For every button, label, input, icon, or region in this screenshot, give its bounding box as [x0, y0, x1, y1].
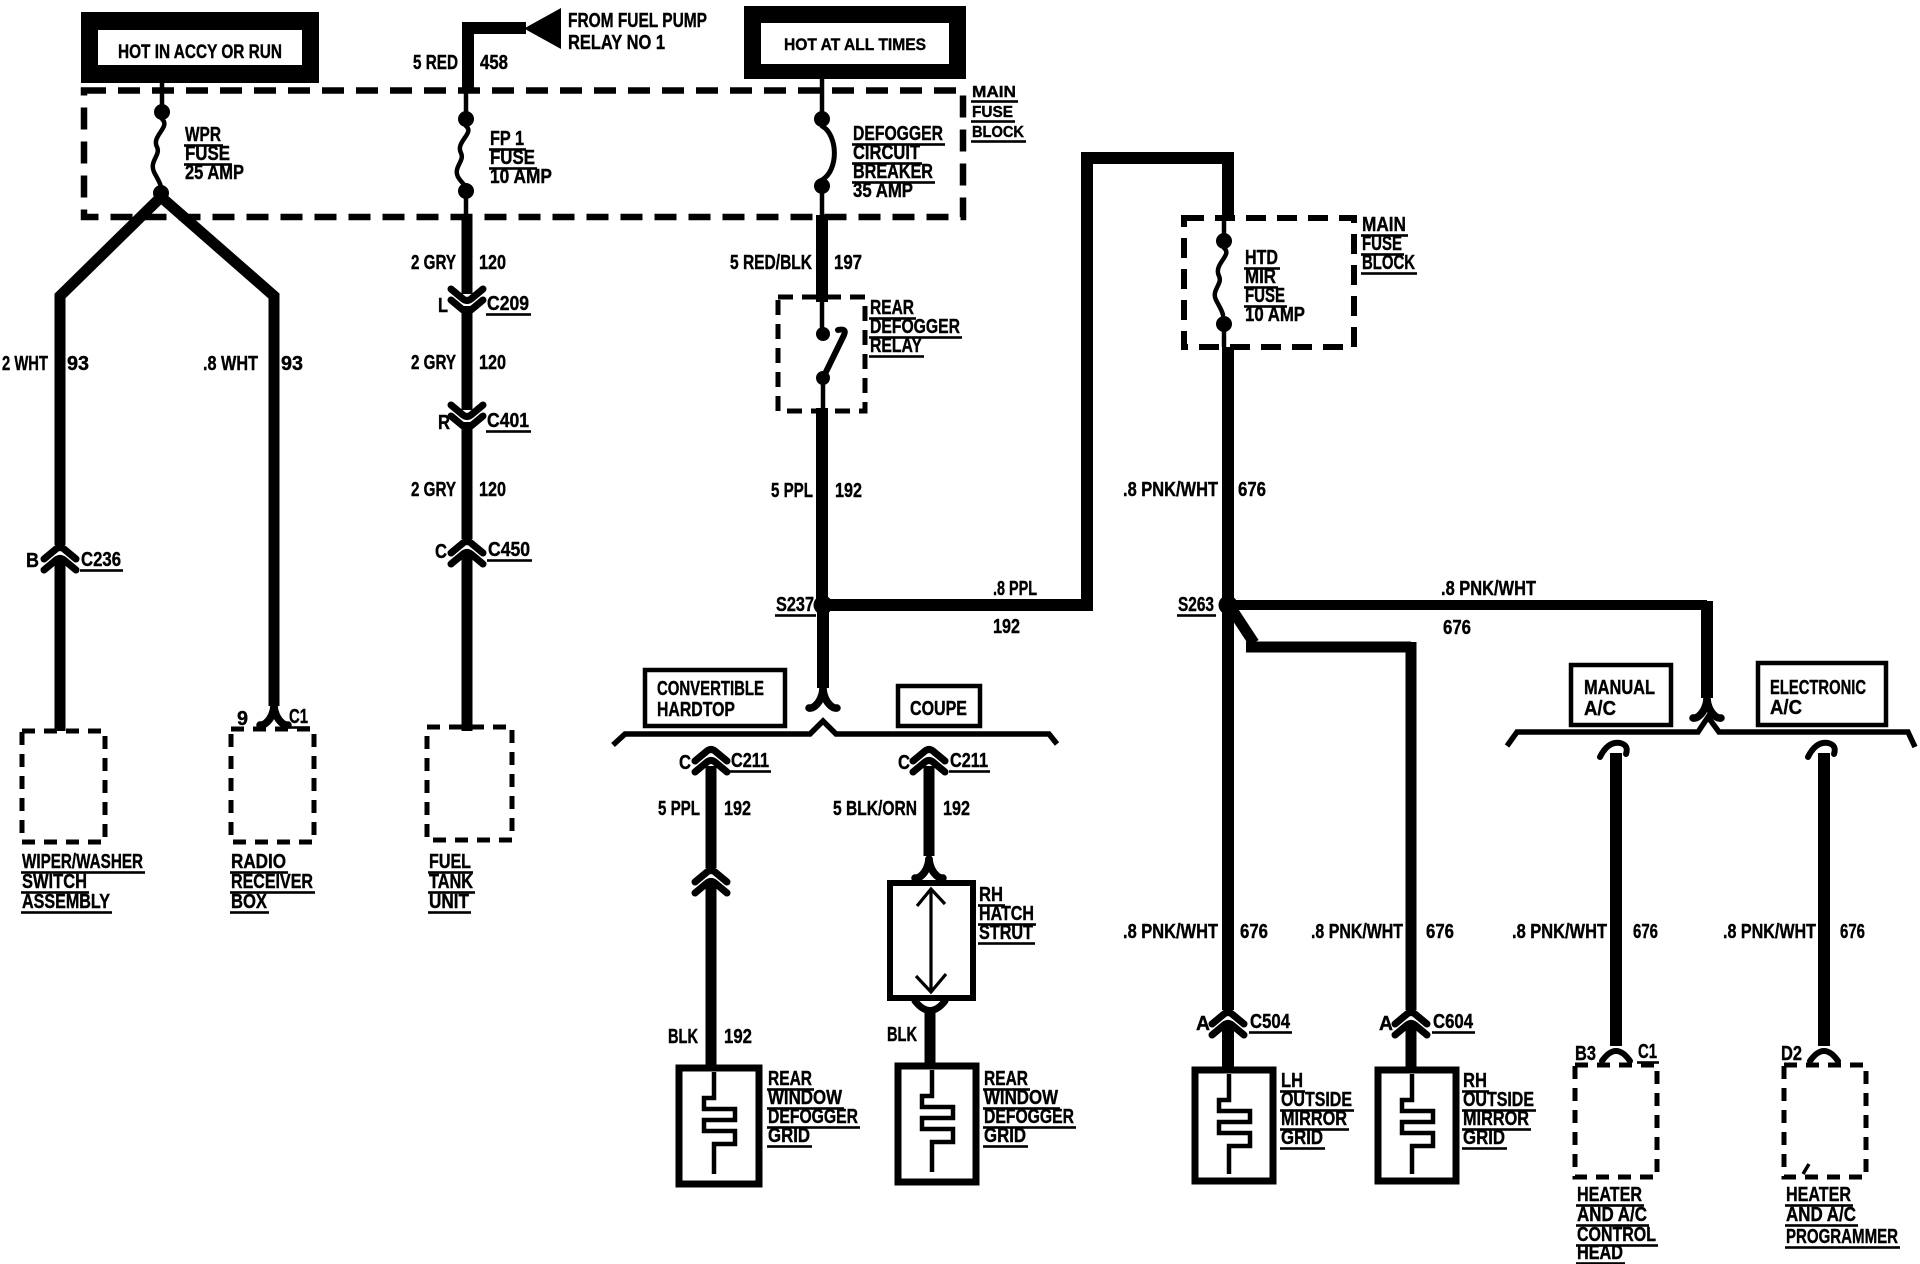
svg-text:C1: C1 — [1638, 1041, 1657, 1063]
connector below RH hatch strut — [915, 1001, 945, 1011]
svg-text:PROGRAMMER: PROGRAMMER — [1786, 1226, 1898, 1248]
svg-text:HEATER: HEATER — [1786, 1184, 1851, 1206]
wire .8 PNK/WHT 676 to C604 — [1406, 642, 1417, 1070]
svg-text:ASSEMBLY: ASSEMBLY — [22, 891, 111, 913]
svg-text:FUSE: FUSE — [972, 104, 1013, 121]
svg-text:5 PPL: 5 PPL — [658, 798, 700, 820]
svg-text:.8 PNK/WHT: .8 PNK/WHT — [1123, 479, 1218, 501]
svg-text:676: 676 — [1238, 479, 1266, 501]
wire 5 PPL 192 to S237 — [816, 408, 828, 611]
svg-text:COUPE: COUPE — [910, 698, 967, 720]
svg-text:C604: C604 — [1433, 1011, 1474, 1033]
svg-text:2 WHT: 2 WHT — [2, 353, 48, 375]
svg-text:676: 676 — [1443, 617, 1471, 639]
RH mirror grid element — [1402, 1074, 1433, 1174]
heater and A/C control head dashed box — [1575, 1065, 1657, 1177]
rear window defogger grid box (convertible) — [679, 1068, 759, 1184]
svg-text:C: C — [435, 541, 447, 563]
wire 5 BLK/ORN 192 to hatch strut — [924, 766, 935, 856]
connector C211 (convertible) — [695, 750, 727, 773]
LH mirror grid element — [1219, 1074, 1250, 1174]
wiper/washer switch assembly dashed box — [22, 731, 105, 842]
svg-text:676: 676 — [1633, 921, 1658, 943]
main fuse block dashed box (right) — [1184, 218, 1354, 347]
connector C209 — [451, 289, 483, 312]
split fork to manual/electronic A/C — [1693, 699, 1721, 718]
convertible hardtop label box — [645, 670, 785, 726]
defogger grid element — [704, 1072, 735, 1174]
svg-text:120: 120 — [479, 252, 506, 274]
svg-text:.8 PNK/WHT: .8 PNK/WHT — [1512, 921, 1607, 943]
wire stub to WPR fuse — [160, 81, 165, 112]
connector C401 — [451, 405, 483, 428]
svg-text:5 BLK/ORN: 5 BLK/ORN — [833, 798, 917, 820]
fuse FP1 10A squiggle — [457, 126, 469, 186]
manual A/C label box — [1571, 665, 1671, 725]
svg-text:93: 93 — [281, 353, 303, 375]
svg-text:CONVERTIBLE: CONVERTIBLE — [657, 678, 764, 700]
arrow to FROM FUEL PUMP RELAY NO 1 — [524, 8, 561, 49]
svg-text:AND A/C: AND A/C — [1577, 1204, 1647, 1226]
relay contact top — [816, 327, 830, 341]
strut arrow bottom — [916, 974, 946, 992]
relay contact bottom — [816, 371, 830, 385]
svg-text:192: 192 — [835, 480, 862, 502]
svg-text:35 AMP: 35 AMP — [853, 180, 913, 202]
wire .8 PPL 192 to main fuse block — [830, 158, 1228, 605]
svg-text:93: 93 — [67, 353, 89, 375]
svg-text:MAIN: MAIN — [972, 84, 1016, 101]
svg-text:C: C — [898, 752, 910, 774]
svg-text:120: 120 — [479, 352, 506, 374]
svg-text:C504: C504 — [1250, 1011, 1291, 1033]
wire stub below FP1 — [464, 191, 469, 217]
svg-text:25 AMP: 25 AMP — [185, 162, 244, 184]
svg-text:ELECTRONIC: ELECTRONIC — [1770, 677, 1866, 699]
svg-text:A/C: A/C — [1584, 698, 1616, 720]
svg-text:C211: C211 — [950, 750, 988, 772]
wire 2 GRY 120 to fuel tank unit — [462, 215, 473, 731]
RH outside mirror grid box — [1378, 1070, 1456, 1181]
svg-text:192: 192 — [724, 1026, 752, 1048]
wire BLK to rear window defogger grid — [925, 1013, 936, 1066]
connector C236 — [44, 548, 76, 571]
electronic A/C label box — [1758, 663, 1886, 725]
coupe label box — [898, 686, 980, 726]
HTD MIR fuse top terminal — [1216, 233, 1232, 249]
connector C604 — [1395, 1013, 1427, 1036]
strut feed-through line — [929, 890, 932, 991]
connector C211 (coupe) — [913, 750, 945, 773]
wire diagonal from S263 — [1231, 608, 1254, 643]
svg-text:HOT AT ALL TIMES: HOT AT ALL TIMES — [784, 35, 926, 54]
wire .8 PNK/WHT 676 to programmer — [1818, 753, 1830, 1046]
wire .8 PNK/WHT 676 to C504 — [1222, 605, 1234, 1070]
svg-text:WIPER/WASHER: WIPER/WASHER — [22, 851, 143, 873]
fuse WPR 25A squiggle — [153, 119, 165, 187]
svg-text:676: 676 — [1426, 921, 1454, 943]
main fuse block dashed box — [84, 91, 963, 218]
svg-text:676: 676 — [1840, 921, 1865, 943]
svg-text:5 PPL: 5 PPL — [771, 480, 813, 502]
fuse internal stub — [1222, 221, 1227, 241]
svg-text:STRUT: STRUT — [979, 922, 1033, 944]
svg-text:5 RED: 5 RED — [413, 52, 458, 74]
svg-text:HEAD: HEAD — [1577, 1242, 1623, 1264]
wire stub to FP1 fuse — [464, 91, 469, 120]
svg-text:GRID: GRID — [984, 1125, 1026, 1147]
svg-text:10 AMP: 10 AMP — [1245, 304, 1305, 326]
svg-text:FROM FUEL PUMP: FROM FUEL PUMP — [568, 10, 707, 32]
svg-text:2 GRY: 2 GRY — [411, 352, 456, 374]
wire to RH mirror column — [1246, 642, 1411, 653]
svg-text:RELAY NO 1: RELAY NO 1 — [568, 32, 665, 54]
splice S263 — [1219, 596, 1238, 615]
wire 5 RED/BLK 197 to relay — [816, 215, 828, 302]
connector C1 at control head — [1602, 1051, 1630, 1061]
FP1 fuse top terminal — [458, 111, 474, 127]
HTD MIR fuse bottom terminal — [1216, 316, 1232, 332]
tick mark inside programmer box — [1803, 1164, 1809, 1174]
strut arrow top — [917, 889, 945, 906]
svg-text:HEATER: HEATER — [1577, 1184, 1642, 1206]
svg-text:197: 197 — [834, 252, 862, 274]
svg-text:L: L — [438, 295, 448, 317]
svg-text:GRID: GRID — [1281, 1127, 1323, 1149]
relay switch blade — [823, 330, 845, 378]
defogger grid element — [922, 1070, 953, 1172]
svg-text:S263: S263 — [1178, 594, 1214, 616]
svg-text:B: B — [26, 550, 39, 572]
svg-text:192: 192 — [724, 798, 751, 820]
flag box HOT IN ACCY OR RUN — [81, 12, 319, 83]
wire stub below breaker — [820, 186, 825, 217]
svg-text:BLK: BLK — [668, 1026, 698, 1048]
svg-text:TANK: TANK — [429, 871, 473, 893]
connector above RH hatch strut — [915, 859, 943, 878]
RH hatch strut box — [890, 883, 973, 998]
wire 5 PPL 192 to rear window defogger grid — [706, 766, 717, 1068]
svg-text:2 GRY: 2 GRY — [411, 479, 456, 501]
connector C450 — [451, 542, 483, 565]
WPR fuse bottom terminal — [153, 185, 169, 201]
svg-text:C: C — [679, 752, 691, 774]
svg-text:BLOCK: BLOCK — [1362, 252, 1415, 274]
svg-text:SWITCH: SWITCH — [22, 871, 87, 893]
FP1 fuse bottom terminal — [458, 183, 474, 199]
svg-text:.8 PNK/WHT: .8 PNK/WHT — [1441, 578, 1536, 600]
svg-text:RECEIVER: RECEIVER — [231, 871, 313, 893]
svg-text:192: 192 — [993, 616, 1020, 638]
svg-text:S237: S237 — [776, 594, 814, 616]
circuit breaker top terminal — [814, 111, 830, 127]
wire down to A/C bracket — [1701, 601, 1713, 698]
svg-text:5 RED/BLK: 5 RED/BLK — [730, 252, 812, 274]
svg-text:458: 458 — [480, 52, 508, 74]
connector C1 fork at radio — [260, 706, 288, 725]
fuse HTD MIR 10A squiggle — [1215, 248, 1227, 315]
bracket convertible/coupe — [613, 721, 1057, 745]
connector at manual A/C drop — [1600, 743, 1627, 757]
svg-text:BOX: BOX — [231, 891, 268, 913]
fuel tank unit dashed box — [427, 727, 512, 840]
wire 2 WHT 93 to wiper switch — [60, 197, 161, 731]
svg-text:AND A/C: AND A/C — [1786, 1204, 1856, 1226]
wire .8 WHT 93 to radio — [161, 197, 274, 706]
svg-text:FUEL: FUEL — [429, 851, 471, 873]
svg-text:.8 PNK/WHT: .8 PNK/WHT — [1311, 921, 1403, 943]
svg-text:676: 676 — [1240, 921, 1268, 943]
heater and A/C programmer dashed box — [1784, 1065, 1866, 1177]
svg-text:HOT IN ACCY OR RUN: HOT IN ACCY OR RUN — [118, 42, 282, 63]
svg-text:A/C: A/C — [1770, 697, 1802, 719]
circuit breaker 35A arc — [822, 126, 834, 180]
svg-text:.8 PNK/WHT: .8 PNK/WHT — [1123, 921, 1218, 943]
wire .8 PNK/WHT 676 to A/C — [1235, 600, 1707, 610]
svg-text:RELAY: RELAY — [870, 335, 923, 357]
svg-text:C401: C401 — [487, 410, 529, 432]
LH outside mirror grid box — [1195, 1070, 1273, 1181]
wire from S237 down to split — [817, 611, 829, 688]
svg-text:.8 PPL: .8 PPL — [993, 578, 1037, 600]
relay internal wire — [820, 302, 825, 334]
rear defogger relay dashed box — [778, 297, 865, 411]
wire .8 PNK/WHT 676 to control head — [1610, 753, 1622, 1046]
svg-text:HARDTOP: HARDTOP — [657, 699, 735, 721]
svg-text:120: 120 — [479, 479, 506, 501]
wire .8 PNK/WHT 676 to S263 — [1222, 347, 1234, 605]
WPR fuse top terminal — [154, 104, 170, 120]
svg-text:D2: D2 — [1781, 1043, 1802, 1065]
wire stub to circuit breaker — [820, 79, 825, 119]
fuse internal stub — [1222, 324, 1227, 347]
svg-text:192: 192 — [943, 798, 970, 820]
connector at electronic A/C drop — [1808, 743, 1835, 757]
svg-text:C209: C209 — [487, 293, 529, 315]
svg-text:C236: C236 — [81, 549, 121, 571]
splice S237 — [814, 596, 833, 615]
flag box HOT AT ALL TIMES — [744, 6, 966, 79]
svg-text:C211: C211 — [731, 750, 769, 772]
rear window defogger grid box (coupe) — [898, 1066, 976, 1182]
svg-text:BLOCK: BLOCK — [972, 124, 1024, 141]
radio receiver box dashed box — [231, 729, 314, 842]
svg-text:GRID: GRID — [1463, 1127, 1505, 1149]
connector D2 at programmer — [1810, 1051, 1838, 1061]
svg-text:BLK: BLK — [887, 1024, 917, 1046]
svg-text:A: A — [1379, 1013, 1393, 1035]
split fork to hardtop/coupe — [809, 689, 837, 708]
bracket manual/electronic A/C — [1507, 717, 1915, 747]
svg-text:10 AMP: 10 AMP — [490, 166, 552, 188]
svg-text:C450: C450 — [488, 539, 530, 561]
connector C504 — [1212, 1013, 1244, 1036]
svg-text:R: R — [438, 412, 450, 434]
svg-text:RADIO: RADIO — [231, 851, 286, 873]
circuit breaker bottom terminal — [814, 178, 830, 194]
svg-text:.8 PNK/WHT: .8 PNK/WHT — [1723, 921, 1816, 943]
svg-text:A: A — [1196, 1013, 1210, 1035]
relay internal wire — [821, 378, 826, 409]
wire 5 RED 458 to fuel pump relay — [468, 28, 526, 91]
svg-text:GRID: GRID — [768, 1125, 810, 1147]
inline connector — [695, 871, 727, 894]
svg-text:MANUAL: MANUAL — [1584, 677, 1655, 699]
svg-text:C1: C1 — [289, 706, 308, 728]
svg-text:UNIT: UNIT — [429, 891, 469, 913]
svg-text:2 GRY: 2 GRY — [411, 252, 456, 274]
svg-text:B3: B3 — [1575, 1043, 1596, 1065]
svg-text:.8 WHT: .8 WHT — [203, 353, 258, 375]
